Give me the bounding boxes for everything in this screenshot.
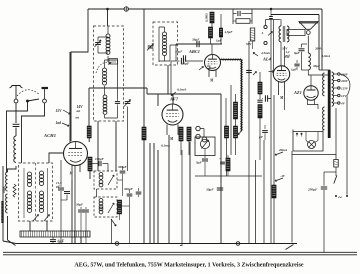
svg-text:100µF: 100µF	[95, 157, 105, 161]
switch wave band 1	[33, 215, 39, 222]
trimmer IF2b	[108, 203, 114, 213]
svg-text:AF7: AF7	[169, 97, 179, 102]
switch bottom right	[286, 245, 294, 250]
wire osc box drop2	[97, 121, 99, 171]
switch antenna selector	[26, 100, 29, 103]
svg-text:250µF: 250µF	[307, 188, 318, 192]
terminal TA1	[264, 25, 267, 28]
tap 12V	[334, 95, 338, 97]
capacitor v260	[257, 99, 262, 101]
wire h172	[324, 171, 336, 173]
wire x147 drop	[146, 88, 148, 94]
svg-text:0,1mA: 0,1mA	[161, 144, 171, 148]
svg-text:30µF: 30µF	[205, 188, 214, 192]
tap 220V	[334, 80, 338, 82]
wire af7 anode drop	[157, 94, 159, 106]
resistor R-cath	[88, 157, 92, 171]
antenna A1	[10, 86, 23, 100]
wire abc1 grid top	[211, 44, 213, 55]
shield box IF2a	[94, 171, 117, 189]
capacitor 30uF left	[80, 207, 82, 209]
transformer output sec	[287, 26, 289, 42]
wire right bus corner down	[318, 15, 320, 71]
capacitor cath 1	[60, 160, 62, 187]
component box filter	[195, 137, 215, 156]
padder block	[109, 59, 118, 65]
trimmer osc	[125, 101, 131, 103]
terminal grid jack1	[196, 126, 200, 130]
wire v271 long	[270, 9, 272, 16]
speaker horn	[299, 22, 318, 30]
wire top HT bus	[88, 8, 322, 10]
resistor R-bias	[272, 185, 276, 198]
tap 4V	[334, 102, 338, 104]
wire v252 down	[252, 41, 254, 49]
wire box out left	[29, 221, 31, 231]
capacitor 33uF	[196, 41, 198, 47]
tube AL4	[273, 66, 289, 82]
svg-text:ABC1: ABC1	[188, 49, 200, 54]
tap 240V	[334, 73, 338, 75]
transformer output prim	[279, 26, 281, 42]
wire r down2	[188, 141, 190, 155]
svg-text:30µF: 30µF	[75, 203, 84, 207]
wire lamp leads	[305, 132, 307, 141]
capacitor 250uF	[323, 172, 325, 186]
capacitor antenna series	[13, 123, 20, 125]
svg-text:30µF: 30µF	[312, 64, 321, 68]
coil L3	[6, 194, 8, 213]
wire ladder tap 1	[74, 237, 76, 244]
wire v271 mid	[268, 98, 271, 100]
svg-text:15V: 15V	[56, 109, 63, 113]
svg-text:5µF: 5µF	[196, 161, 203, 165]
svg-text:~: ~	[338, 195, 342, 202]
capacitor grid coupling	[269, 16, 273, 18]
wire resistor to tube	[88, 138, 90, 142]
resistor R-screen	[87, 126, 91, 138]
svg-text:1µF: 1µF	[216, 39, 223, 43]
terminal grid jack2	[196, 134, 200, 138]
wire switch down-left	[7, 103, 28, 173]
meas -4V	[275, 178, 283, 181]
transformer core lines	[282, 26, 284, 42]
switch wave band 2	[44, 215, 50, 222]
trimmer if1	[148, 45, 154, 47]
wire left col down	[170, 61, 172, 94]
switch arc dashed	[17, 90, 40, 96]
wire left of h3	[175, 44, 177, 61]
terminal mains1	[335, 195, 337, 197]
switch bank bar	[20, 231, 90, 237]
junction dot right	[270, 8, 273, 11]
svg-text:4,5mA: 4,5mA	[260, 51, 271, 55]
resistor R-if	[117, 200, 121, 214]
svg-text:220V: 220V	[340, 79, 349, 83]
switch mains left lever	[8, 240, 16, 246]
svg-text:ACH1: ACH1	[43, 133, 56, 138]
wire grid feed up	[49, 153, 64, 163]
coil L5	[39, 171, 43, 175]
svg-text:-4V: -4V	[280, 174, 286, 178]
wire far-left vertical	[2, 166, 4, 241]
switch if arrow	[111, 219, 116, 226]
wire af7 top drop	[172, 94, 174, 104]
wire box out right	[46, 221, 48, 231]
wire v336 mid	[335, 167, 337, 176]
coil IF2a-2	[99, 180, 103, 184]
resistor R-v260 upper	[258, 82, 262, 94]
junction top bus	[124, 7, 128, 11]
capacitor 30uF left2	[85, 207, 87, 209]
wire far-left to bus	[3, 241, 16, 244]
resistor R coupling	[236, 19, 250, 24]
resistor R-v226	[224, 126, 228, 138]
variable cap circle	[200, 139, 209, 148]
coil L8b osc mid	[103, 68, 107, 72]
capacitor 100uF link	[90, 163, 98, 165]
wire can taps	[149, 143, 151, 244]
svg-text:1ad: 1ad	[56, 121, 62, 125]
capacitor v265 lower	[264, 125, 266, 129]
wire sec frame	[287, 30, 305, 36]
capacitor 30uF mid	[217, 187, 223, 189]
svg-text:4 Ω: 4 Ω	[283, 55, 289, 59]
svg-text:50V: 50V	[246, 42, 252, 46]
wire left coil down	[7, 216, 9, 240]
wire al4 anode up	[280, 42, 282, 66]
coil left dark winding	[1, 201, 3, 223]
wire right corner down x322	[321, 9, 323, 70]
tube AF7	[162, 104, 183, 125]
coil L9 osc	[103, 95, 107, 99]
capacitor 6uF	[52, 237, 54, 239]
switch mains	[334, 176, 337, 184]
coil L4	[27, 172, 31, 176]
wire v231	[230, 85, 232, 155]
coil IF2b-2	[99, 207, 103, 211]
svg-text:AEG, 57W, und Telefunken, 755W: AEG, 57W, und Telefunken, 755W Markstein…	[74, 263, 303, 269]
wire af7 bus h94	[147, 93, 221, 95]
capacitor on v249	[246, 69, 252, 71]
svg-text:0,1mA: 0,1mA	[177, 88, 187, 92]
svg-text:AZ1: AZ1	[293, 90, 302, 95]
rule upper	[3, 251, 357, 253]
bus terminal 1	[115, 242, 119, 246]
terminal antenna	[14, 99, 18, 103]
wire osc box drop	[115, 121, 117, 171]
wire h200 link	[117, 179, 123, 181]
wire ladder tap 2	[80, 237, 82, 244]
wire box internal right	[47, 168, 49, 218]
wire v226	[225, 98, 227, 126]
wire az1 top	[310, 75, 312, 86]
wire af7 legs	[166, 125, 168, 136]
svg-text:1µF: 1µF	[291, 68, 297, 72]
coil IF2a-1	[99, 173, 103, 177]
coil L6	[27, 191, 31, 195]
capacitor 0,1uF	[182, 55, 184, 61]
shielded lead horizontal	[221, 59, 242, 61]
svg-text:µF: µF	[55, 185, 61, 189]
capacitor 1uF	[296, 60, 298, 63]
resistor R-v235b	[233, 126, 237, 138]
svg-text:0,1µF: 0,1µF	[181, 62, 190, 66]
svg-text:125V: 125V	[341, 87, 349, 91]
wire osc feed drop	[107, 9, 109, 26]
wire v260 top	[259, 72, 261, 82]
wire v273 bus	[270, 196, 272, 244]
wire to coil	[15, 128, 17, 136]
wire al4 legs	[278, 82, 280, 95]
wire r gap	[211, 23, 213, 27]
trimmer osc upper	[95, 42, 101, 44]
wire h176	[195, 175, 262, 177]
wire v347	[346, 95, 348, 195]
wire grid H	[266, 19, 281, 21]
svg-text:10µF: 10µF	[175, 50, 183, 54]
svg-text:8µF: 8µF	[294, 51, 301, 55]
label 4,5mA	[253, 53, 258, 57]
svg-text:300µF: 300µF	[117, 165, 128, 169]
wire al4 g2 up	[284, 46, 286, 66]
wire v264	[263, 140, 265, 244]
wire anode feed left x70	[69, 52, 71, 142]
capacitor 4,5uF	[220, 14, 222, 28]
terminal pickup	[202, 137, 207, 142]
svg-text:35V: 35V	[281, 47, 288, 51]
wire x144 res	[143, 94, 145, 127]
wire az1 legs	[308, 100, 319, 110]
terminal mains2	[346, 195, 348, 197]
capacitor plus	[220, 161, 225, 163]
wire h154	[292, 154, 336, 156]
shield box band filter	[19, 163, 53, 221]
wire earth terminal down	[22, 103, 45, 163]
wire jacks	[200, 129, 204, 137]
wire screen feed x89	[88, 88, 90, 126]
coil L7	[39, 191, 43, 195]
wire antenna down	[15, 103, 17, 123]
svg-text:33µF: 33µF	[191, 38, 200, 42]
wire primary feed	[324, 70, 326, 135]
wire screen tap	[89, 87, 147, 89]
svg-text:20mA: 20mA	[278, 148, 288, 152]
wire coil jog	[8, 166, 17, 172]
terminal earth	[43, 99, 47, 103]
wire al4 grid drop	[273, 20, 275, 72]
meas arrow 1ad	[62, 123, 69, 126]
svg-text:200V: 200V	[314, 47, 323, 51]
wire v292	[291, 151, 293, 243]
earth post	[42, 87, 49, 89]
capacitor 10uF	[171, 60, 180, 62]
shield arrow end	[238, 131, 242, 135]
transformer secondary	[332, 72, 334, 106]
svg-text:12V: 12V	[341, 94, 347, 98]
wire bias down	[273, 198, 275, 244]
tube ABC1	[205, 55, 221, 71]
wire top-left drop	[71, 9, 88, 141]
wire af7 cath down	[168, 135, 170, 244]
wire under	[143, 140, 145, 244]
capacitor cath 2	[66, 172, 68, 190]
resistor R-250 grid	[250, 28, 255, 41]
wire cath res down	[89, 171, 91, 179]
resistor R-af7 screen	[142, 127, 146, 140]
coil IF2b-1	[99, 199, 103, 203]
wire trimmer drop	[127, 107, 129, 172]
capacitor 300a	[122, 166, 124, 170]
svg-text:4,5µF: 4,5µF	[224, 30, 234, 34]
wire rc loop	[233, 9, 252, 24]
wire rc mid	[233, 20, 236, 22]
svg-text:300µF: 300µF	[123, 187, 134, 191]
diode plates abc1	[207, 66, 211, 69]
resistor R-diode1	[179, 127, 183, 141]
wire sw down	[111, 219, 113, 244]
wire v182 corner	[180, 150, 182, 246]
wire h205 link	[117, 205, 130, 207]
ground bus	[16, 243, 297, 245]
wire v158 down	[157, 150, 159, 244]
wire cath col	[74, 166, 76, 244]
lamp	[308, 141, 316, 149]
speaker coil dot	[306, 31, 310, 35]
wire v249	[248, 41, 250, 244]
wire grid feed	[63, 152, 65, 154]
wire box internal left	[23, 168, 25, 218]
wire osc internals	[105, 60, 118, 118]
shield box oscillator	[94, 26, 124, 121]
shield box IF osc2	[153, 22, 178, 65]
capacitor 5uF	[204, 149, 206, 158]
svg-text:0,3MΩ: 0,3MΩ	[205, 13, 209, 22]
resistor R-diode2	[187, 127, 191, 141]
coil L2	[6, 172, 8, 191]
wire v255	[255, 160, 257, 244]
resistor wavy left	[13, 184, 16, 197]
svg-text:L: L	[261, 31, 264, 35]
wire v336 up	[335, 108, 337, 160]
resistor R 0,3Mohm lower	[208, 27, 212, 38]
wire osc upper	[98, 26, 108, 62]
capacitor coupling top	[233, 13, 237, 15]
resistor R-v228b	[226, 158, 230, 171]
shielded lead vertical	[241, 60, 243, 132]
svg-text:AL4: AL4	[262, 57, 272, 62]
wire term drop	[265, 20, 267, 26]
capacitor 8uF	[301, 44, 303, 48]
tap jumper curve	[340, 74, 350, 95]
lamp terminals	[296, 133, 298, 135]
choke field coil	[308, 53, 310, 70]
resistor R-line	[334, 160, 339, 168]
rule lower	[3, 254, 357, 256]
wire v221	[220, 94, 222, 244]
wire grid line h3	[176, 43, 222, 45]
junction dot osc feed	[106, 8, 109, 11]
capacitor small c	[138, 188, 140, 191]
tap 125V	[334, 87, 338, 89]
wire between cans	[96, 189, 98, 197]
terminal TA2	[264, 41, 267, 44]
wire if1 internals	[159, 27, 177, 62]
svg-text:+: +	[219, 157, 221, 161]
wire v190	[189, 142, 191, 244]
trimmer IF2a	[108, 175, 114, 185]
tuning arc dashed	[96, 62, 110, 73]
wire bottom right loop	[296, 243, 298, 245]
tube AZ1	[304, 86, 318, 100]
coil L10	[163, 32, 167, 36]
transformer primary upper	[323, 73, 325, 96]
svg-text:µF: µF	[258, 135, 264, 139]
wire spk down	[307, 36, 309, 54]
wire choke down	[308, 70, 330, 75]
wire r down1	[180, 141, 182, 155]
meas arrow 15V	[63, 110, 70, 114]
transformer primary lower	[323, 107, 325, 130]
coil L1 antenna	[14, 136, 16, 162]
wire mid drop x144	[143, 9, 145, 94]
resistor R-v260 lower	[258, 105, 262, 119]
wire al4 cath down	[273, 95, 275, 185]
wire prim top	[280, 20, 282, 27]
tube ACH1	[64, 142, 88, 166]
capacitor osc pad	[117, 99, 119, 101]
wire if1 drop	[167, 65, 169, 94]
bus terminal 2	[236, 242, 240, 246]
wire cathode bus	[71, 180, 73, 244]
switch TA arrow	[268, 32, 273, 36]
label 0,1mA top	[171, 92, 176, 96]
capacitor 300b	[129, 190, 131, 193]
svg-text:0,3mA: 0,3mA	[322, 54, 331, 58]
coil L8 osc upper	[106, 34, 110, 38]
wire v286 down	[284, 95, 286, 110]
wire can taps2	[153, 143, 155, 244]
divider dashed	[35, 163, 37, 221]
meas 20mA	[275, 152, 283, 155]
resistor R 0,3Mohm upper	[210, 12, 214, 23]
capacitor h v266	[264, 95, 266, 101]
lamp box	[293, 130, 323, 152]
wire r to h3	[210, 38, 212, 44]
wire tube legs	[71, 166, 73, 181]
wire xfmr top in	[319, 70, 330, 75]
wire abc1 legs	[208, 70, 210, 77]
shield box IF2b	[94, 197, 117, 217]
resistor R-v235 tall	[233, 102, 237, 119]
wire second top bus	[271, 14, 319, 16]
transformer core	[328, 70, 331, 138]
